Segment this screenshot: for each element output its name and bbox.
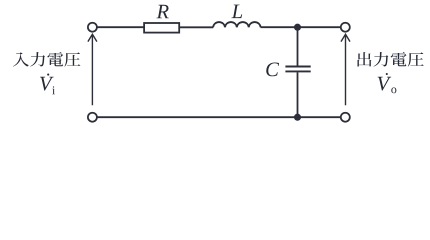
wire capacitor branch upper [297, 27, 299, 65]
label output-voltage kanji 出 [358, 52, 372, 66]
junction node bottom (C-bottom rail) [294, 114, 301, 121]
subscript i of Vi [52, 86, 55, 94]
output voltage arrow (up) [341, 34, 350, 105]
label output-voltage kanji 圧 [408, 52, 424, 66]
resistor R body [144, 23, 179, 33]
label Vo symbol V (output voltage phasor) [378, 77, 391, 91]
inductor L coil [213, 22, 261, 27]
wire bottom rail [97, 116, 341, 118]
wire top-left: input terminal to resistor [97, 26, 144, 28]
input terminal bottom-left [88, 113, 97, 122]
dot above Vo [386, 73, 388, 75]
output terminal top-right [341, 23, 350, 32]
output terminal bottom-right [341, 113, 350, 122]
dot above Vi [47, 74, 49, 76]
input voltage arrow (up) [88, 34, 97, 105]
label Vi symbol V (input voltage phasor) [40, 77, 53, 91]
label output-voltage kanji 電 [391, 52, 407, 66]
capacitor C bottom plate [285, 70, 310, 72]
label input-voltage kanji 電 [47, 52, 63, 66]
label input-voltage kanji 入 [13, 52, 29, 66]
wire resistor to inductor [180, 26, 214, 28]
junction node top (L-C-output) [294, 24, 301, 31]
label L (inductor) [231, 5, 242, 18]
label output-voltage kanji 力 [374, 52, 389, 67]
input terminal top-left [88, 23, 97, 32]
capacitor C top plate [285, 66, 310, 68]
label input-voltage kanji 力 [30, 52, 45, 67]
label input-voltage kanji 圧 [64, 52, 80, 66]
label R (resistor) [156, 5, 168, 18]
subscript o of Vo [391, 88, 396, 94]
wire capacitor branch lower [297, 72, 299, 117]
label C (capacitor) [266, 62, 279, 76]
wire inductor to output terminal [261, 26, 341, 28]
